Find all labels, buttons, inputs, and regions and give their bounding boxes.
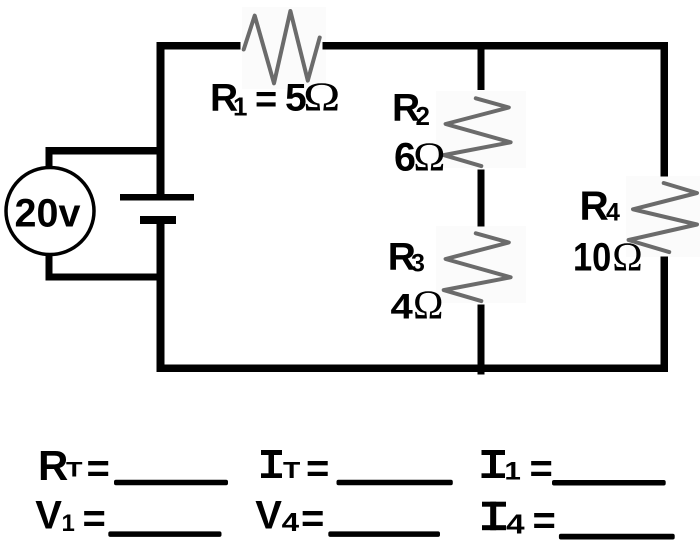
svg-text:Ω: Ω (413, 281, 443, 327)
svg-text:Ω: Ω (413, 134, 445, 180)
svg-text:3: 3 (411, 250, 425, 278)
svg-text:4: 4 (506, 509, 525, 540)
svg-text:=: = (83, 497, 106, 541)
svg-text:4: 4 (282, 507, 300, 537)
svg-text:1: 1 (233, 92, 247, 122)
svg-text:=: = (255, 79, 277, 121)
svg-text:V: V (35, 494, 62, 538)
svg-text:1: 1 (62, 510, 75, 537)
svg-text:V: V (255, 494, 282, 538)
svg-text:T: T (66, 459, 83, 482)
svg-text:Ω: Ω (303, 74, 340, 120)
svg-text:=: = (533, 499, 556, 543)
svg-text:4: 4 (391, 287, 414, 326)
svg-text:=: = (306, 447, 329, 491)
svg-text:4: 4 (606, 199, 620, 227)
svg-text:10: 10 (573, 236, 611, 280)
svg-text:=: = (301, 497, 324, 541)
svg-text:2: 2 (416, 101, 430, 131)
svg-text:T: T (283, 457, 300, 483)
svg-text:1: 1 (504, 458, 521, 486)
svg-text:20v: 20v (15, 192, 81, 236)
svg-text:R: R (38, 442, 68, 489)
svg-text:=: = (530, 447, 553, 491)
svg-text:=: = (87, 447, 110, 491)
svg-text:Ω: Ω (612, 233, 642, 279)
svg-text:R: R (580, 183, 609, 229)
